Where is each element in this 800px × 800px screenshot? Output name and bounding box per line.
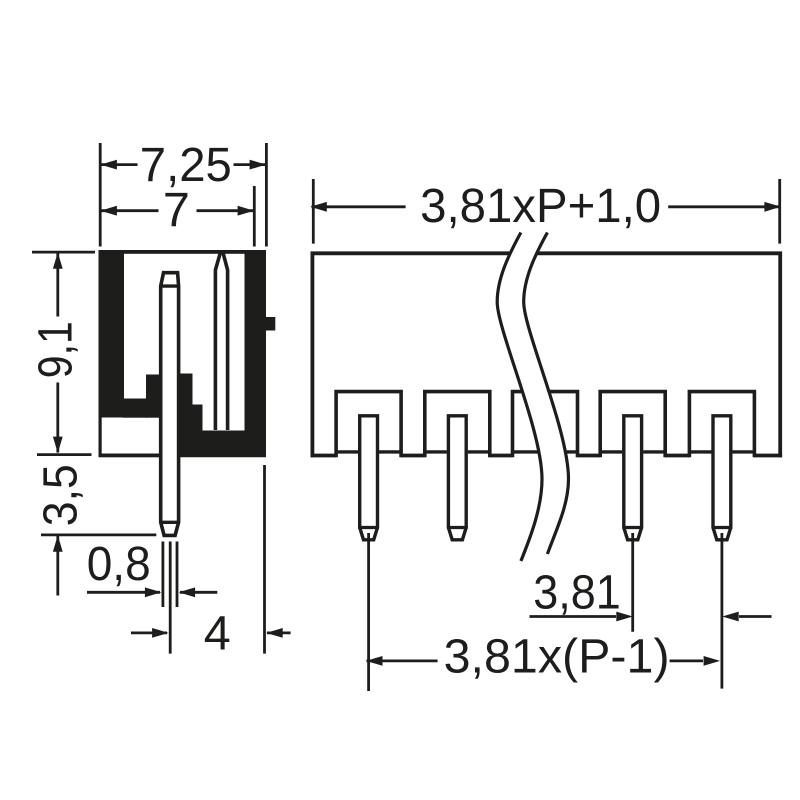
- slot 2 bottom line: [425, 450, 490, 453]
- dimension 3,5: [34, 464, 88, 595]
- right view body outline: [312, 253, 780, 457]
- slot 3: [600, 392, 665, 458]
- break band mask: [497, 233, 568, 562]
- pin 4 extension line: [721, 533, 724, 689]
- dimension 3,81: [530, 566, 772, 622]
- slot 2: [425, 392, 490, 458]
- dimension 0,8 extension lines: [163, 542, 177, 608]
- dimension 7 extension line: [253, 186, 256, 247]
- left view housing fill below notch: [123, 399, 147, 418]
- dimension 9,1 ticks: [32, 252, 95, 455]
- dimension 7,25 extension lines: [100, 143, 266, 247]
- slot hidden (break): [513, 392, 578, 458]
- break line 2: [524, 233, 569, 555]
- pin 4: [712, 416, 733, 540]
- dimension 4 extension lines: [170, 465, 264, 654]
- dimension 0,8: [87, 537, 218, 597]
- dimension 7,25: [100, 138, 266, 192]
- left view housing right wall with staircase and latch tab: [180, 250, 275, 457]
- slot hidden bottom line: [513, 450, 578, 453]
- svg-text:0,8: 0,8: [87, 537, 151, 591]
- svg-text:9,1: 9,1: [29, 321, 83, 378]
- slot 4: [689, 392, 754, 458]
- left view housing outline at foot: [98, 417, 101, 458]
- slot 4 bottom line: [689, 450, 754, 453]
- svg-text:4: 4: [204, 607, 231, 661]
- slot 1 bottom line: [336, 450, 401, 453]
- svg-text:3,5: 3,5: [34, 464, 88, 526]
- left view solder pin: [159, 273, 180, 536]
- dimension 7: [100, 183, 254, 237]
- pin 1 extension line: [367, 533, 370, 691]
- dimension 3,5 tick: [41, 534, 156, 537]
- pin 2: [447, 416, 468, 540]
- left view housing bottom band under foot: [99, 454, 163, 458]
- pin 3: [622, 416, 643, 540]
- dimension 9,1: [29, 252, 83, 453]
- left view housing interior step: [146, 375, 162, 418]
- dimension 3,81x(P-1): [366, 630, 720, 684]
- pin 3 extension line: [631, 533, 634, 632]
- pin 1: [358, 416, 379, 540]
- left view housing left wall: [99, 250, 125, 418]
- dimension 3,81xP+1,0: [310, 179, 781, 233]
- slot 3 bottom line: [600, 450, 665, 453]
- right view body bottom edge segments: [311, 454, 783, 458]
- left view mating pin: [215, 251, 227, 430]
- dimension 4: [131, 607, 291, 661]
- svg-text:3,81: 3,81: [533, 566, 621, 620]
- svg-text:3,81xP+1,0: 3,81xP+1,0: [420, 179, 661, 233]
- slot 1: [336, 392, 401, 458]
- break line 1: [497, 233, 542, 562]
- svg-text:7: 7: [163, 183, 190, 237]
- dimension 3,81xP+1,0 extension lines: [313, 179, 779, 244]
- svg-text:3,81x(P-1): 3,81x(P-1): [444, 630, 670, 684]
- left view housing top bar: [99, 250, 266, 254]
